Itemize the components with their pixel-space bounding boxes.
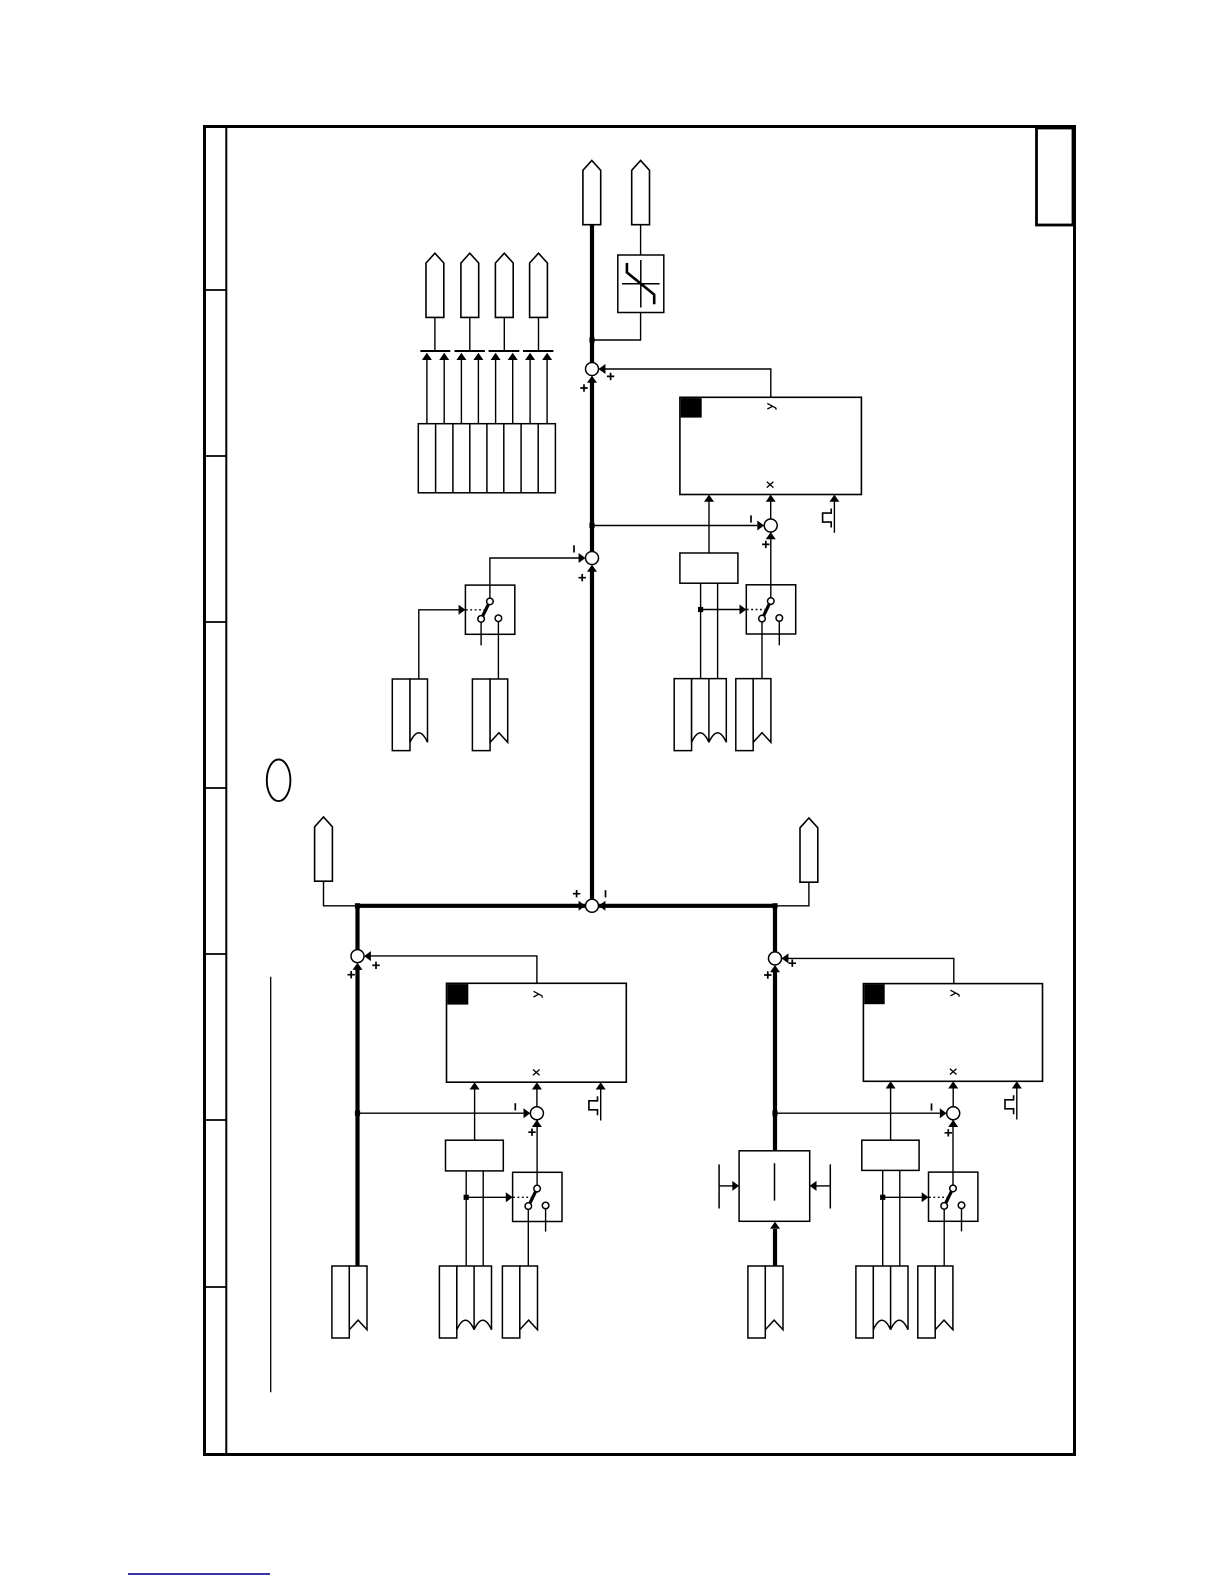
rectangle R1 (parameter block) [680, 553, 738, 583]
switch SW4 [929, 1172, 978, 1221]
zone divider tick 5 [205, 953, 227, 955]
connector pentagon P7 (left input) [315, 817, 333, 881]
summing junction S6 [530, 1107, 543, 1120]
tick bar 3 [489, 350, 520, 352]
comb input pentagon P5 [495, 253, 513, 317]
S1 plus label bottom input [580, 384, 587, 391]
FB2 label y [534, 991, 543, 997]
connector pentagon P8 (right input) [800, 818, 818, 882]
S3 minus label [750, 515, 752, 522]
summing junction S3 [764, 519, 777, 532]
S3 bottom input arrowhead [766, 532, 776, 539]
FB2 input3 step wire [596, 1082, 606, 1120]
thick wire S7 down to limit box [773, 972, 777, 1151]
S3 left input arrowhead [757, 521, 764, 531]
FB2 label x [533, 1070, 540, 1076]
wire tap to SW2 input [701, 605, 747, 615]
function block FB1 (ramp generator) [680, 397, 862, 494]
limit block [739, 1151, 810, 1222]
wire P6 to tick [538, 317, 540, 350]
SW2 right contact stub [778, 621, 780, 645]
title block box top-right corner [1037, 128, 1074, 225]
S8 left input arrowhead [940, 1108, 947, 1118]
S5 plus label right [372, 962, 379, 969]
SW1 output wire to S2 [490, 558, 584, 598]
S4 right input arrowhead [599, 901, 606, 911]
SW3 left contact wire to flag [527, 1209, 529, 1266]
FB1 input2 wire from S3 [766, 495, 776, 533]
wire tap to SW4 input [883, 1192, 929, 1202]
S4 minus label [605, 890, 607, 897]
FB3 step symbol [1005, 1095, 1014, 1114]
tick bar 2 [455, 350, 485, 352]
comb input pentagon P6 [530, 253, 548, 317]
flag F6 (notch, main line) [748, 1266, 783, 1338]
thick wire left junction down to S5 [355, 906, 359, 950]
S2 bottom input arrowhead [587, 565, 597, 572]
flag F2 (notch) [472, 679, 507, 751]
flag F4 (notch, main line) [332, 1266, 367, 1338]
S5 plus label bottom [348, 971, 355, 978]
main wire S1 to S2 [590, 382, 594, 552]
thick wire S5 down to flag F4 [355, 969, 359, 1266]
FB1 input1 wire from rect R1 [704, 495, 714, 553]
wire P7 to left junction [324, 881, 356, 906]
wire tap to SW3 input [466, 1192, 512, 1202]
drawing frame outer border [205, 127, 1075, 1455]
wire arc flag to SW1 input [419, 610, 460, 679]
connector pentagon P2 (limited output) [632, 161, 650, 225]
S8 plus label [945, 1129, 952, 1136]
S6 plus label [528, 1129, 535, 1136]
summing junction S7 [769, 952, 782, 965]
FB3 input1 wire from rect R3 [886, 1081, 896, 1140]
SW4 right contact stub [961, 1209, 963, 1232]
thick wire right junction to S4 [599, 904, 775, 908]
FB1 input3 step wire [829, 495, 839, 533]
limit block left T input [719, 1164, 739, 1208]
S4 plus label [573, 890, 580, 897]
flag F1 (arc) [392, 679, 427, 751]
FB1 step symbol [823, 509, 832, 528]
S1 right input arrowhead [599, 364, 606, 374]
SW3 output wire to S6 [536, 1120, 538, 1185]
wire P8 to right junction [777, 882, 809, 906]
main wire S2 to S4 [590, 571, 594, 899]
junction dot R3 tap to switch SW4 [880, 1195, 885, 1200]
thick wire flag F6 up into limit block [770, 1222, 780, 1266]
SW4 output wire to S8 [952, 1120, 954, 1185]
wire main line tap to S8 [775, 1112, 940, 1114]
frame inner left margin line [225, 127, 227, 1455]
S2 minus label [573, 545, 575, 552]
thick wire left junction to S4 [358, 904, 586, 908]
junction main line to limiter tap [589, 337, 594, 342]
FB3 input3 step wire [1012, 1081, 1022, 1119]
S6 minus label [514, 1103, 516, 1110]
ellipse mark [267, 760, 291, 802]
S7 right input arrowhead [782, 953, 789, 963]
connector pentagon P1 (main output) [583, 161, 601, 225]
summing junction S8 [947, 1107, 960, 1120]
FB2 input2 wire from S6 [532, 1082, 542, 1120]
zone divider tick 7 [205, 1286, 227, 1288]
S1 bottom input arrowhead [587, 376, 597, 383]
comb arrowheads [422, 353, 552, 360]
switch SW1 [465, 585, 514, 634]
S4 left input arrowhead [579, 901, 586, 911]
rectangle R3 (parameter block) [862, 1140, 919, 1170]
feedback wire block1 y to S1 [600, 369, 771, 397]
S7 bottom input arrowhead [770, 965, 780, 972]
zone divider tick 2 [205, 455, 227, 457]
junction dot R1 tap to switch SW2 [698, 607, 703, 612]
SW2 output wire to S3 [770, 533, 772, 598]
junction dot main line S3 tap [589, 523, 594, 528]
S2 left input arrowhead [579, 553, 586, 563]
wire P3 to tick [434, 317, 436, 350]
junction dot left [355, 903, 360, 908]
flag F3 (notch) [736, 679, 771, 751]
wire P4 to tick [469, 317, 471, 350]
rectangle R2 (parameter block) [446, 1140, 504, 1171]
S5 right input arrowhead [364, 951, 371, 961]
limit block right T input [810, 1164, 831, 1208]
S7 plus label right [789, 960, 796, 967]
S1 plus label right input [607, 373, 614, 380]
FB3 input2 wire from S8 [948, 1081, 958, 1120]
zone divider tick 3 [205, 621, 227, 623]
flag F7 (notch) [918, 1266, 953, 1338]
S5 bottom input arrowhead [353, 963, 363, 970]
junction dot right [772, 903, 777, 908]
feedback wire FB2 y to S5 [366, 956, 537, 983]
R1 output wires down to flags [701, 583, 718, 678]
comb input pentagon P4 [461, 253, 479, 317]
SW1 left contact stub [480, 622, 482, 645]
R2 output wires down to flags [466, 1171, 483, 1266]
main wire P1 down to summing junction S1 [590, 225, 594, 363]
switch SW2 [746, 585, 795, 634]
S6 bottom input arrowhead [532, 1120, 542, 1127]
comb box 8 cells [418, 424, 555, 493]
summing junction S2 [586, 552, 599, 565]
wire P2 to limiter [640, 225, 642, 255]
FB3 label y [950, 990, 959, 996]
left margin thin vertical line [270, 977, 272, 1393]
FB1 label x [767, 482, 774, 488]
zone divider tick 6 [205, 1119, 227, 1121]
double flag DF1 [674, 679, 726, 751]
zone divider tick 4 [205, 787, 227, 789]
thick wire right junction down to S7 [773, 906, 777, 952]
comb arrows 8 lines [427, 360, 547, 424]
tick bar 1 [420, 350, 450, 352]
function block FB3 [863, 984, 1042, 1082]
SW3 right contact stub [545, 1209, 547, 1232]
junction dot R2 tap to switch SW3 [464, 1195, 469, 1200]
switch SW3 [513, 1172, 562, 1221]
wire limiter to main line [594, 313, 641, 341]
FB2 input1 wire from rect R2 [470, 1082, 480, 1140]
SW1 right contact wire to flag [497, 622, 499, 679]
SW4 left contact wire to flag [943, 1209, 945, 1266]
comb input pentagon P3 [426, 253, 444, 317]
SW1 input arrowhead [459, 605, 466, 615]
wire main line tap to S3 [592, 525, 757, 527]
FB1 label y [767, 403, 776, 409]
blue footer line [128, 1573, 270, 1575]
S6 left input arrowhead [524, 1108, 531, 1118]
flag F5 (notch) [502, 1266, 537, 1338]
junction dot main line S6 tap [355, 1111, 360, 1116]
SW2 left contact wire to flag [761, 622, 763, 679]
S3 plus label [762, 541, 769, 548]
junction dot main line S8 tap [772, 1111, 777, 1116]
feedback wire FB3 y to S7 [782, 958, 954, 983]
R3 output wires down to flags [883, 1170, 900, 1266]
S7 plus label bottom [764, 971, 771, 978]
summing junction S5 [351, 950, 364, 963]
S2 plus label [579, 574, 586, 581]
S8 bottom input arrowhead [948, 1120, 958, 1127]
limiter block [618, 255, 664, 313]
summing junction S4 [586, 899, 599, 912]
wire main line tap to S6 [358, 1112, 524, 1114]
double flag DF2 [439, 1266, 491, 1338]
summing junction S1 [586, 363, 599, 376]
FB3 label x [950, 1069, 957, 1075]
tick bar 4 [523, 350, 553, 352]
zone divider tick 1 [205, 289, 227, 291]
wire P5 to tick [503, 317, 505, 350]
S8 minus label [931, 1103, 933, 1110]
FB2 step symbol [589, 1096, 598, 1115]
function block FB2 [447, 983, 627, 1082]
double flag DF3 [856, 1266, 908, 1338]
